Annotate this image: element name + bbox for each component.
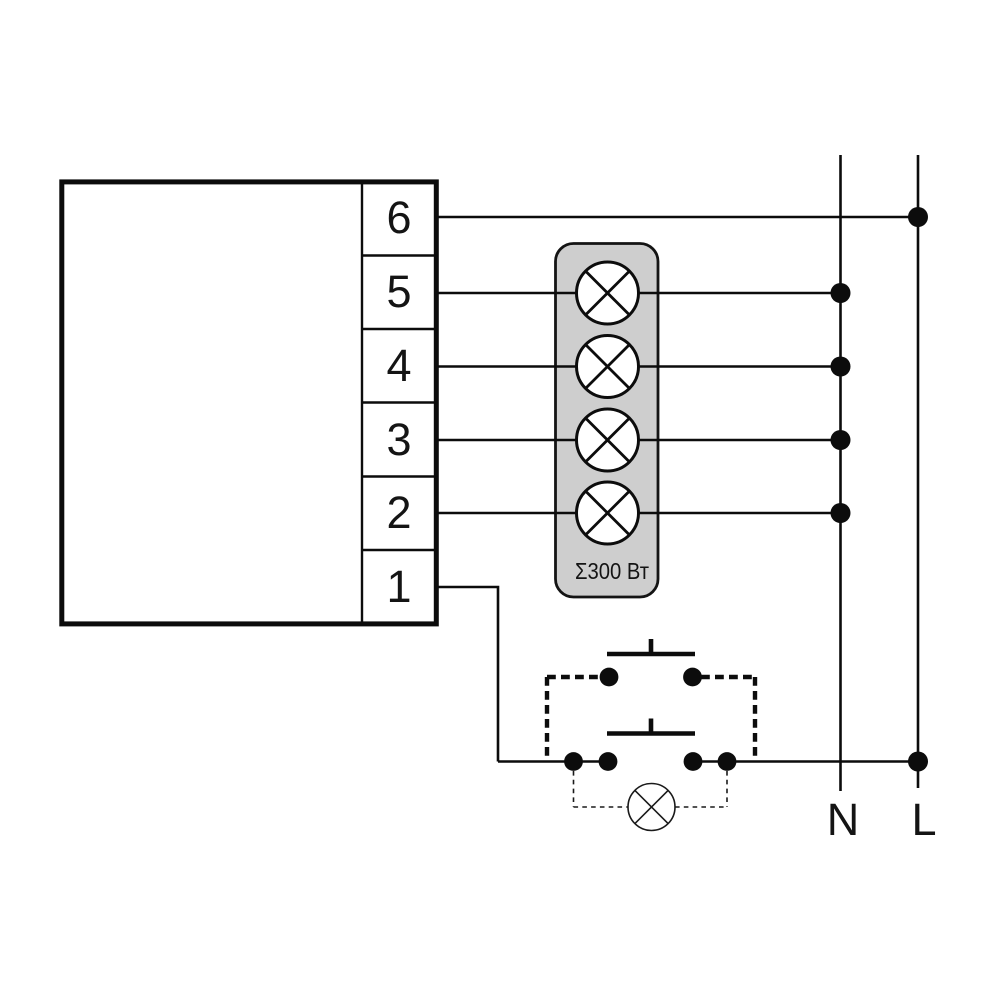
svg-text:1: 1 <box>386 561 411 612</box>
svg-text:6: 6 <box>386 192 411 243</box>
svg-text:N: N <box>827 794 860 845</box>
svg-text:Σ300 Вт: Σ300 Вт <box>575 558 649 584</box>
svg-text:4: 4 <box>386 340 411 391</box>
svg-text:3: 3 <box>386 414 411 465</box>
svg-text:5: 5 <box>386 266 411 317</box>
svg-text:L: L <box>911 794 936 845</box>
svg-text:2: 2 <box>386 487 411 538</box>
